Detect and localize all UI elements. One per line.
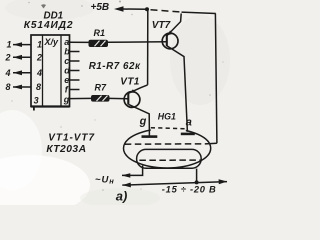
IC inner partition right — [60, 35, 62, 107]
wire R1 to VT7 base — [108, 41, 167, 43]
pin d stub — [70, 70, 80, 72]
transistor VT7 — [162, 33, 178, 49]
input 2 wire — [13, 56, 31, 58]
svg-text:2: 2 — [36, 52, 42, 62]
IC inner partition left — [42, 35, 44, 107]
Un arrowhead lower — [122, 183, 131, 188]
filament left lead — [122, 166, 143, 176]
svg-text:c: c — [64, 56, 69, 66]
svg-text:4: 4 — [5, 68, 11, 78]
svg-text:b: b — [64, 46, 70, 56]
right vertical wire to tube grid — [215, 14, 217, 144]
envelope top gap white-out — [151, 123, 186, 132]
input 4 wire — [13, 72, 31, 74]
svg-text:а): а) — [116, 188, 128, 203]
svg-text:VT1-VT7: VT1-VT7 — [48, 132, 95, 143]
Un arrowhead upper — [122, 173, 131, 178]
paper background — [0, 0, 230, 205]
svg-text:К514ИД2: К514ИД2 — [24, 20, 74, 31]
svg-text:e: e — [64, 75, 69, 85]
wire pin g to R7 — [70, 97, 92, 99]
filament dashed line — [139, 159, 201, 161]
svg-text:VT7: VT7 — [152, 20, 171, 31]
input 4 arrowhead — [13, 70, 22, 75]
wire R7 to VT1 base — [110, 97, 128, 99]
svg-text:d: d — [64, 66, 70, 76]
resistor R7 — [91, 95, 110, 102]
IC box bottom edge emphasis — [31, 105, 70, 107]
grid dashed line — [125, 143, 208, 145]
supply vertical wire to VT1 emitter — [147, 9, 149, 85]
svg-text:VT1: VT1 — [120, 77, 139, 88]
svg-text:g: g — [63, 94, 70, 104]
svg-text:~Uн: ~Uн — [95, 175, 115, 186]
indicator HG1 envelope ellipse — [124, 129, 211, 168]
svg-text:8: 8 — [36, 82, 41, 92]
svg-text:R7: R7 — [95, 82, 107, 92]
IC DD1 box — [31, 35, 70, 107]
+5V rail solid — [123, 8, 148, 10]
svg-text:g: g — [139, 115, 147, 127]
dashed continuation between electrodes — [151, 128, 187, 129]
svg-text:1: 1 — [7, 39, 12, 49]
+5V rail right solid — [182, 12, 216, 13]
svg-text:R1-R7 62к: R1-R7 62к — [89, 61, 141, 72]
input 8 arrowhead — [13, 85, 22, 90]
svg-text:4: 4 — [36, 68, 42, 78]
input 1 wire — [13, 44, 31, 46]
supply right arrowhead — [219, 179, 228, 184]
filament right lead — [196, 169, 198, 183]
grid electrode plate g — [142, 135, 158, 138]
junction dot on rail — [145, 7, 149, 11]
input 8 wire — [13, 86, 31, 88]
+5V arrowhead — [114, 6, 124, 11]
wire pin a to R1 — [70, 41, 89, 43]
svg-text:X/y: X/y — [44, 37, 60, 47]
anode electrode plate a — [181, 133, 195, 136]
pin f stub — [70, 89, 80, 91]
pin b stub — [70, 51, 80, 53]
input 1 arrowhead — [13, 42, 22, 47]
+5V rail dashed continuation — [151, 10, 184, 13]
pin c stub — [70, 60, 80, 62]
svg-text:2: 2 — [5, 52, 11, 62]
svg-text:-15 ÷ -20 В: -15 ÷ -20 В — [162, 185, 217, 195]
svg-text:+5В: +5В — [91, 2, 110, 13]
svg-text:КТ203А: КТ203А — [46, 144, 86, 155]
scan noise marks — [41, 4, 46, 8]
svg-text:R1: R1 — [94, 28, 106, 38]
input 2 arrowhead — [13, 55, 22, 60]
svg-text:a: a — [186, 116, 192, 128]
negative supply line — [122, 182, 227, 186]
resistor R1 — [89, 40, 109, 47]
grid line exit to right wire — [208, 142, 217, 145]
transistor VT1 — [124, 92, 140, 108]
svg-text:HG1: HG1 — [158, 111, 176, 121]
pin e stub — [70, 79, 80, 81]
svg-text:a: a — [64, 37, 69, 47]
svg-text:1: 1 — [37, 39, 42, 49]
svg-text:8: 8 — [6, 82, 11, 92]
junction dot on negative line — [195, 180, 199, 184]
tube base stadium — [137, 149, 202, 168]
svg-text:3: 3 — [34, 96, 39, 106]
